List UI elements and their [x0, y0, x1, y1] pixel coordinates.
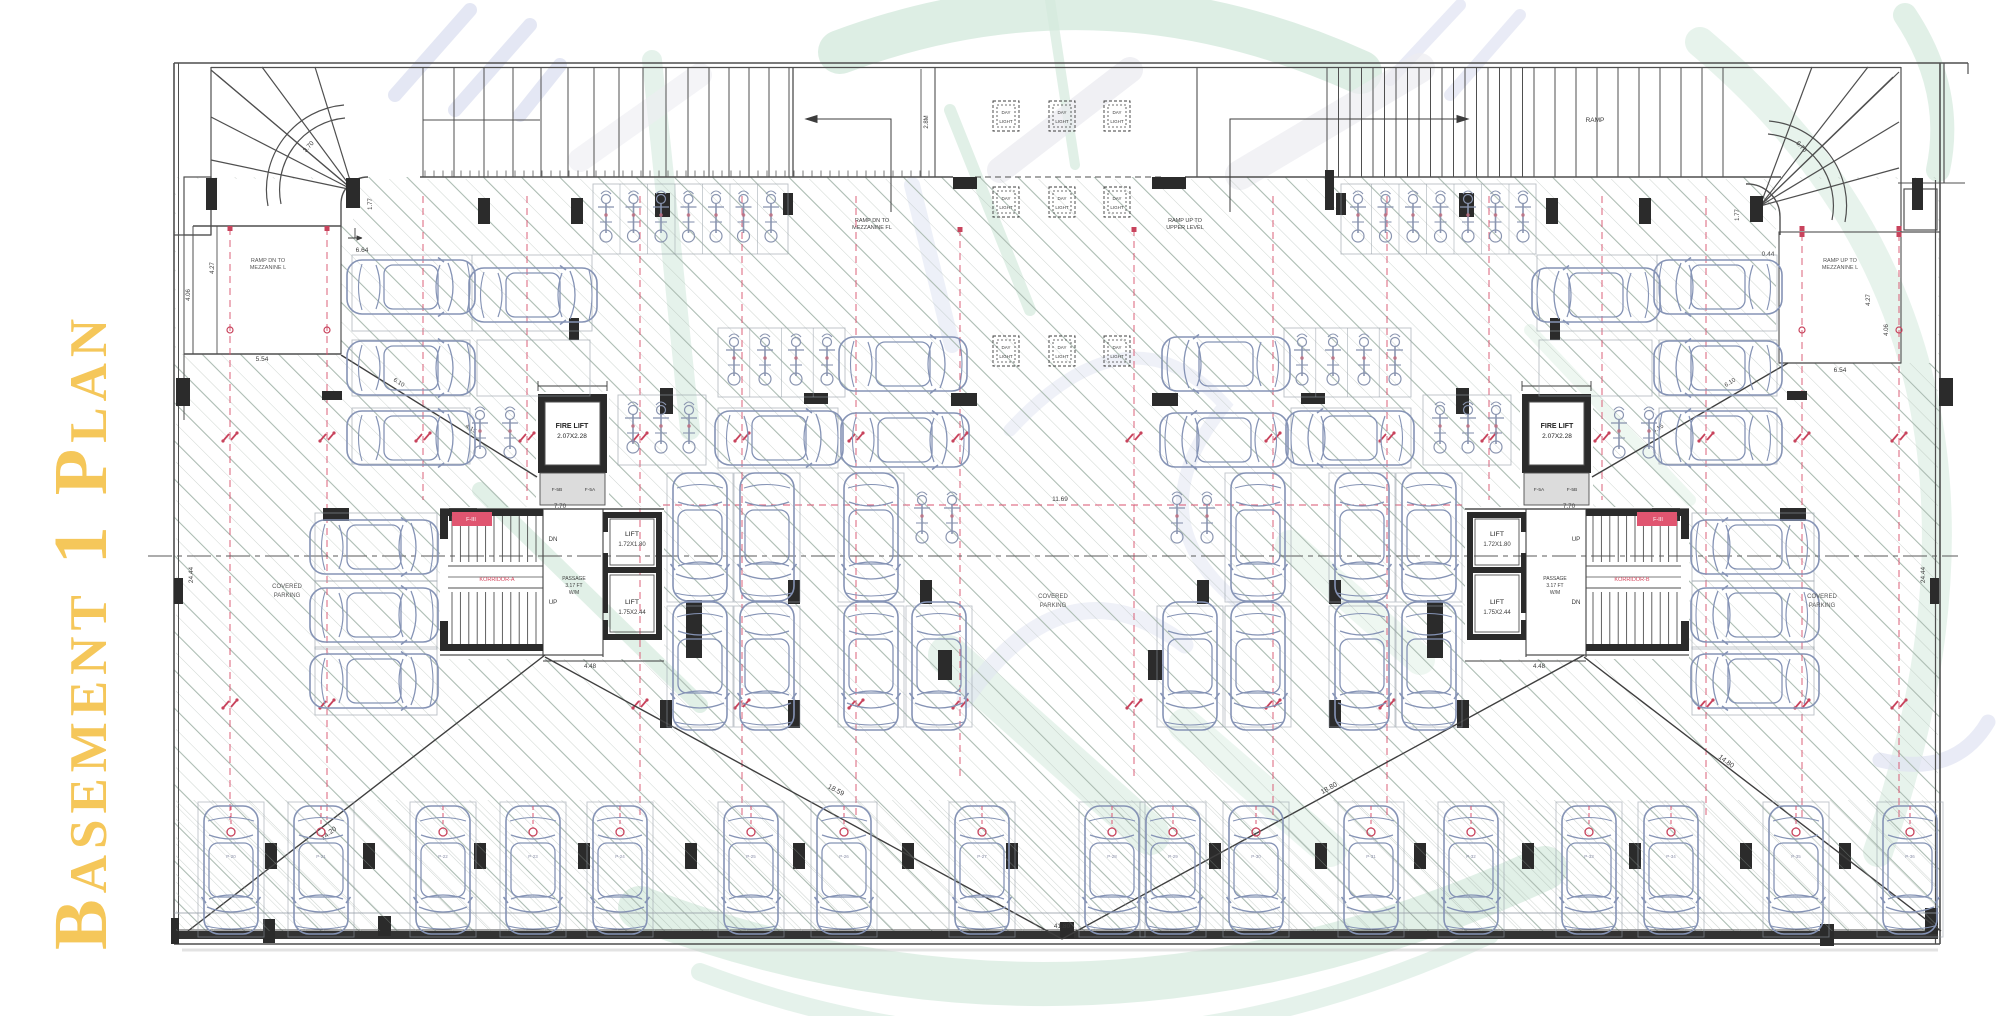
svg-text:LIGHT: LIGHT	[1110, 205, 1124, 210]
svg-text:LIFT: LIFT	[625, 599, 639, 606]
svg-text:KORRIDOR-B: KORRIDOR-B	[1614, 577, 1649, 583]
svg-text:P-25: P-25	[746, 854, 756, 859]
svg-text:P-24: P-24	[615, 854, 625, 859]
svg-text:5.54: 5.54	[256, 356, 269, 363]
svg-text:PARKING: PARKING	[274, 593, 301, 599]
svg-text:DAY: DAY	[1113, 345, 1122, 350]
svg-text:UPPER LEVEL: UPPER LEVEL	[1166, 225, 1204, 231]
svg-text:7.70: 7.70	[554, 503, 567, 510]
svg-text:LIGHT: LIGHT	[999, 119, 1013, 124]
svg-text:P-22: P-22	[438, 854, 448, 859]
svg-text:FIRE LIFT: FIRE LIFT	[556, 423, 589, 430]
svg-text:24.44: 24.44	[1920, 566, 1927, 583]
svg-text:LIGHT: LIGHT	[1055, 205, 1069, 210]
svg-text:DAY: DAY	[1002, 345, 1011, 350]
svg-text:DAY: DAY	[1113, 196, 1122, 201]
svg-text:COVERED: COVERED	[272, 584, 302, 590]
svg-text:4.06: 4.06	[1884, 324, 1890, 336]
svg-text:W/M: W/M	[1550, 590, 1560, 596]
svg-text:4.06: 4.06	[186, 289, 192, 301]
svg-text:P-28: P-28	[1107, 854, 1117, 859]
svg-text:MEZZANINE FL: MEZZANINE FL	[852, 225, 892, 231]
svg-text:2.07X2.28: 2.07X2.28	[1542, 433, 1572, 440]
svg-text:F-III: F-III	[466, 517, 476, 523]
svg-text:RAMP UP TO: RAMP UP TO	[1823, 258, 1858, 264]
svg-text:P-23: P-23	[528, 854, 538, 859]
svg-text:FIRE LIFT: FIRE LIFT	[1541, 423, 1574, 430]
svg-text:UP: UP	[1572, 536, 1581, 543]
svg-text:P-20: P-20	[226, 854, 236, 859]
svg-text:4.48: 4.48	[584, 663, 597, 670]
svg-text:KORRIDOR-A: KORRIDOR-A	[479, 577, 514, 583]
svg-text:PASSAGE: PASSAGE	[562, 576, 586, 582]
svg-text:DAY: DAY	[1113, 110, 1122, 115]
svg-text:LIFT: LIFT	[1490, 599, 1504, 606]
svg-text:3.17 FT: 3.17 FT	[565, 583, 582, 589]
svg-text:1.72X1.80: 1.72X1.80	[1483, 542, 1511, 548]
svg-text:4.48: 4.48	[1533, 663, 1546, 670]
svg-text:P-34: P-34	[1666, 854, 1676, 859]
svg-text:P-33: P-33	[1584, 854, 1594, 859]
svg-text:LIGHT: LIGHT	[1110, 354, 1124, 359]
svg-text:7.70: 7.70	[1563, 503, 1576, 510]
svg-text:11.69: 11.69	[1052, 496, 1068, 503]
svg-text:4.27: 4.27	[1866, 294, 1872, 306]
svg-text:P-27: P-27	[977, 854, 987, 859]
svg-text:6.54: 6.54	[1834, 367, 1847, 374]
svg-text:LIGHT: LIGHT	[1055, 119, 1069, 124]
svg-text:MEZZANINE L: MEZZANINE L	[1822, 265, 1858, 271]
svg-text:LIGHT: LIGHT	[1110, 119, 1124, 124]
svg-text:2.07X2.28: 2.07X2.28	[557, 433, 587, 440]
svg-text:1.75X2.44: 1.75X2.44	[618, 610, 646, 616]
svg-text:1.77: 1.77	[1735, 209, 1741, 221]
svg-text:3.17 FT: 3.17 FT	[1546, 583, 1563, 589]
svg-text:1.72X1.80: 1.72X1.80	[618, 542, 646, 548]
svg-text:P-21: P-21	[316, 854, 326, 859]
svg-text:0.44: 0.44	[1762, 251, 1775, 258]
svg-text:P-29: P-29	[1168, 854, 1178, 859]
svg-text:24.44: 24.44	[188, 566, 195, 583]
svg-text:DAY: DAY	[1002, 196, 1011, 201]
svg-text:PASSAGE: PASSAGE	[1543, 576, 1567, 582]
svg-text:LIGHT: LIGHT	[1055, 354, 1069, 359]
svg-text:RAMP DN TO: RAMP DN TO	[251, 258, 286, 264]
svg-text:F-5A: F-5A	[1534, 487, 1545, 493]
svg-text:P-36: P-36	[1905, 854, 1915, 859]
svg-text:LIGHT: LIGHT	[999, 354, 1013, 359]
svg-text:6.64: 6.64	[356, 247, 369, 254]
svg-text:COVERED: COVERED	[1038, 594, 1068, 600]
svg-text:UP: UP	[549, 599, 558, 606]
svg-text:1.75X2.44: 1.75X2.44	[1483, 610, 1511, 616]
svg-text:PARKING: PARKING	[1040, 603, 1067, 609]
svg-text:LIFT: LIFT	[1490, 531, 1504, 538]
svg-text:F-5B: F-5B	[552, 487, 562, 493]
svg-text:P-26: P-26	[839, 854, 849, 859]
svg-text:F-5B: F-5B	[1567, 487, 1577, 493]
svg-text:RAMP: RAMP	[1586, 117, 1605, 124]
svg-text:LIGHT: LIGHT	[999, 205, 1013, 210]
svg-text:LIFT: LIFT	[625, 531, 639, 538]
svg-text:3.70: 3.70	[302, 140, 316, 154]
svg-text:MEZZANINE L: MEZZANINE L	[250, 265, 286, 271]
svg-text:P-35: P-35	[1791, 854, 1801, 859]
svg-text:1.77: 1.77	[368, 198, 374, 210]
svg-text:F-III: F-III	[1653, 517, 1663, 523]
svg-text:RAMP UP TO: RAMP UP TO	[1168, 218, 1203, 224]
svg-text:F-5A: F-5A	[585, 487, 596, 493]
svg-text:2.8M: 2.8M	[924, 115, 930, 128]
svg-text:P-30: P-30	[1251, 854, 1261, 859]
svg-text:DAY: DAY	[1002, 110, 1011, 115]
svg-text:DN: DN	[1572, 599, 1581, 606]
svg-text:COVERED: COVERED	[1807, 594, 1837, 600]
svg-text:PARKING: PARKING	[1809, 603, 1836, 609]
svg-text:DAY: DAY	[1058, 196, 1067, 201]
svg-text:DAY: DAY	[1058, 345, 1067, 350]
svg-text:DAY: DAY	[1058, 110, 1067, 115]
svg-text:W/M: W/M	[569, 590, 579, 596]
svg-text:P-31: P-31	[1366, 854, 1376, 859]
svg-text:DN: DN	[549, 536, 558, 543]
svg-text:P-32: P-32	[1466, 854, 1476, 859]
svg-text:RAMP DN TO: RAMP DN TO	[855, 218, 890, 224]
svg-text:4.27: 4.27	[210, 262, 216, 274]
